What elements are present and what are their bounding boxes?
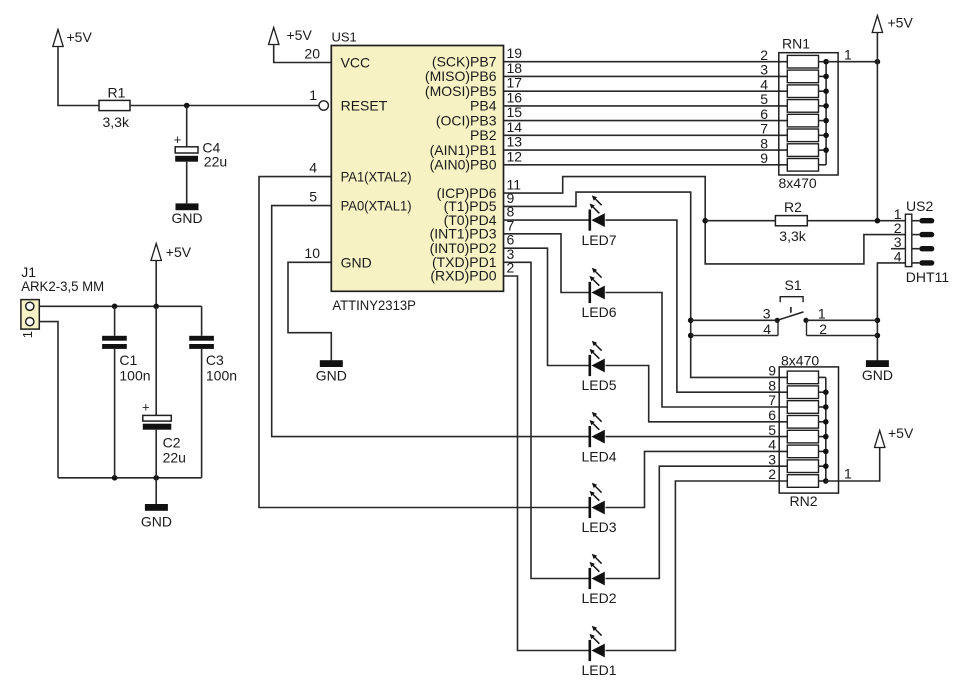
svg-text:PB2: PB2 — [470, 127, 497, 143]
wire ground rail to GND — [155, 478, 157, 504]
node RN1 common bus junction 1 — [823, 59, 829, 65]
wire US1 PB pin 15 to RN1 — [504, 120, 788, 122]
svg-text:C3: C3 — [206, 352, 224, 368]
connector US2 DHT11 — [891, 198, 949, 285]
svg-text:1: 1 — [309, 87, 317, 103]
svg-text:ATTINY2313P: ATTINY2313P — [332, 297, 416, 313]
US1 pin 11 number — [507, 177, 522, 193]
node ground rail/C2 junction — [153, 475, 159, 481]
US1 pin 5 number — [309, 188, 317, 204]
node RN2 common bus junction 1 — [823, 389, 829, 395]
LED LED1 — [581, 626, 616, 678]
svg-text:22u: 22u — [163, 450, 186, 466]
wire S1 pin 2 row — [807, 335, 878, 337]
wire US1 GND pin 10 to ground — [288, 262, 331, 360]
svg-text:1: 1 — [20, 331, 35, 338]
US1 pin 16 number — [507, 89, 523, 105]
svg-text:4: 4 — [768, 437, 776, 453]
svg-text:RN2: RN2 — [790, 493, 818, 509]
svg-text:6: 6 — [768, 407, 776, 423]
node S1 pin3 junction — [688, 318, 694, 324]
US1 pin 17 number — [507, 75, 523, 91]
svg-text:8x470: 8x470 — [779, 175, 817, 191]
power +5V symbol (near RN2) — [875, 425, 914, 447]
svg-text:C2: C2 — [163, 435, 181, 451]
node R2/+5V/DHT11 pin1 junction — [875, 218, 881, 224]
node data/R2 junction — [702, 218, 708, 224]
svg-text:LED6: LED6 — [581, 304, 616, 320]
svg-text:(MISO)PB6: (MISO)PB6 — [425, 68, 497, 84]
svg-text:GND: GND — [341, 254, 372, 270]
US1 pin 2 number — [507, 260, 515, 276]
wire DHT11 pin 4 to GND — [877, 263, 905, 360]
US1 pin 12 number — [507, 148, 523, 164]
svg-text:DHT11: DHT11 — [906, 269, 950, 285]
US1 pin 3 number — [507, 246, 515, 262]
power +5V symbol (top left) — [53, 29, 93, 47]
ground GND (below US1) — [316, 360, 347, 383]
svg-text:3: 3 — [768, 451, 776, 467]
LED LED7 — [581, 195, 616, 247]
power +5V symbol (above C2) — [151, 244, 192, 261]
svg-text:(RXD)PD0: (RXD)PD0 — [430, 268, 496, 284]
svg-text:S1: S1 — [785, 277, 802, 293]
node RN1 common bus junction 6 — [823, 133, 829, 139]
US1 pin 14 number — [507, 119, 523, 135]
node RN1 common bus junction 5 — [823, 118, 829, 124]
svg-text:GND: GND — [141, 514, 172, 530]
svg-text:PA0(XTAL1): PA0(XTAL1) — [341, 198, 412, 214]
node S1 pin4 junction — [688, 333, 694, 339]
resistor network RN1 8x470 — [760, 36, 852, 192]
wire US1 PD0 pin 2 to LED1 — [504, 276, 590, 651]
wire J1 pin 2 to ground rail — [39, 322, 58, 478]
US1 pin 6 number — [507, 232, 515, 248]
US1 pin 19 number — [507, 45, 523, 61]
svg-text:3,3k: 3,3k — [779, 228, 806, 244]
svg-text:4: 4 — [763, 321, 771, 337]
US1 pin 20 number — [304, 45, 320, 61]
wire +5V rail down to R2/DHT11 — [876, 33, 878, 221]
ground GND (below C2) — [141, 504, 172, 530]
node rail/C1 junction — [112, 304, 118, 310]
svg-text:22u: 22u — [204, 153, 227, 169]
wire US1 PB pin 19 to RN1 — [504, 61, 788, 63]
svg-text:100n: 100n — [119, 367, 150, 383]
wire US1 PB pin 17 to RN1 — [504, 90, 788, 92]
wire S1 pin 3 row — [691, 319, 778, 321]
node RN2 common bus junction 2 — [823, 404, 829, 410]
svg-text:US1: US1 — [332, 30, 357, 45]
capacitor C1 100n — [102, 306, 150, 478]
switch S1 (push button) — [763, 277, 827, 337]
wire R1 to US1 RESET — [130, 105, 319, 107]
svg-text:(MOSI)PB5: (MOSI)PB5 — [425, 83, 497, 99]
svg-text:+5V: +5V — [67, 29, 93, 45]
svg-text:LED5: LED5 — [581, 377, 616, 393]
node RN1 common bus junction 2 — [823, 74, 829, 80]
wire LED6 to RN2 pin 7 — [606, 293, 788, 408]
wire US1 PB pin 12 to RN1 — [504, 164, 788, 166]
svg-text:GND: GND — [171, 210, 202, 226]
svg-text:3: 3 — [760, 62, 768, 78]
US1 pin 8 number — [507, 204, 515, 220]
svg-text:PB4: PB4 — [470, 98, 497, 114]
svg-text:5: 5 — [309, 188, 317, 204]
svg-text:RESET: RESET — [341, 98, 388, 114]
svg-text:US2: US2 — [906, 198, 933, 214]
svg-text:RN1: RN1 — [782, 36, 810, 52]
US1 pin 18 number — [507, 60, 523, 76]
svg-text:VCC: VCC — [341, 55, 371, 71]
US1 pin 7 number — [507, 217, 515, 233]
svg-text:9: 9 — [760, 150, 768, 166]
svg-text:(SCK)PB7: (SCK)PB7 — [432, 53, 497, 69]
US1 RESET inversion circle (pin 1) — [319, 101, 328, 110]
IC US1 ATTINY2313P — [331, 30, 503, 313]
wire US1 PD2 pin 6 to LED5 — [504, 248, 590, 365]
LED LED6 — [581, 268, 616, 320]
capacitor C2 22u (electrolytic) — [142, 306, 186, 478]
svg-text:2: 2 — [760, 47, 768, 63]
svg-text:8x470: 8x470 — [781, 353, 819, 369]
svg-text:(AIN0)PB0: (AIN0)PB0 — [430, 157, 497, 173]
wire US1 PA0 pin 5 to LED4 — [272, 206, 590, 437]
node RN1 pin1/+5V junction — [875, 59, 881, 65]
wire LED7 to RN2 pin 8 — [606, 220, 788, 392]
wire US1 PD4 pin 8 to LED7 — [504, 219, 590, 221]
node RN1 common bus junction 7 — [823, 147, 829, 153]
svg-text:1: 1 — [844, 465, 852, 481]
svg-text:4: 4 — [760, 76, 768, 92]
wire S1 pin 4 row — [691, 335, 778, 337]
wire RN2 pin 1 to +5V — [826, 448, 880, 482]
svg-text:(AIN1)PB1: (AIN1)PB1 — [430, 142, 497, 158]
LED LED2 — [581, 554, 616, 606]
wire +5V to US1 VCC pin 20 — [274, 45, 332, 63]
wire +5V to supply rail — [155, 261, 157, 307]
svg-text:5: 5 — [768, 422, 776, 438]
svg-text:100n: 100n — [206, 367, 237, 383]
node RN1 common bus junction 3 — [823, 88, 829, 94]
US1 pin 13 number — [507, 134, 523, 150]
svg-text:+: + — [142, 400, 150, 415]
svg-text:J1: J1 — [21, 264, 36, 280]
svg-text:+5V: +5V — [888, 425, 914, 441]
wire LED4 to RN2 pin 5 — [606, 436, 788, 438]
US1 pin 1 number — [309, 87, 317, 103]
ground GND (below DHT11) — [862, 360, 893, 383]
wire US1 PB pin 18 to RN1 — [504, 75, 788, 77]
wire LED2 to RN2 pin 3 — [606, 466, 788, 578]
svg-text:7: 7 — [760, 121, 768, 137]
capacitor C4 22u (electrolytic) — [174, 106, 227, 204]
wire US1 PB pin 16 to RN1 — [504, 105, 788, 107]
svg-text:1: 1 — [818, 305, 826, 321]
node S1 pin2 junction — [875, 333, 881, 339]
svg-text:7: 7 — [768, 392, 776, 408]
power +5V symbol (above US1) — [269, 27, 313, 45]
wire US1 PA1 pin 4 to LED3 — [259, 177, 590, 508]
svg-text:+5V: +5V — [166, 244, 192, 260]
node RN2 common bus junction 7 — [823, 478, 829, 484]
svg-text:10: 10 — [304, 245, 320, 261]
wire US1 PB pin 14 to RN1 — [504, 134, 788, 136]
LED LED3 — [581, 483, 616, 535]
svg-text:4: 4 — [309, 159, 317, 175]
svg-text:4: 4 — [894, 248, 902, 264]
node RN2 common bus junction 3 — [823, 419, 829, 425]
wire US1 PD6 pin 11 to DHT11 pin 2 (data) — [504, 177, 906, 264]
svg-text:3: 3 — [763, 305, 771, 321]
svg-text:8: 8 — [768, 377, 776, 393]
svg-text:2: 2 — [768, 466, 776, 482]
svg-text:19: 19 — [507, 45, 523, 61]
svg-text:20: 20 — [304, 45, 320, 61]
node RN2 common bus junction 4 — [823, 434, 829, 440]
US1 pin 9 number — [507, 190, 515, 206]
svg-text:3,3k: 3,3k — [103, 114, 130, 130]
wire LED3 to RN2 pin 4 — [606, 451, 788, 507]
svg-text:+: + — [174, 132, 182, 147]
node RN2 common bus junction 5 — [823, 449, 829, 455]
node rail/C2 junction — [153, 304, 159, 310]
svg-text:+5V: +5V — [287, 27, 313, 43]
svg-text:R2: R2 — [784, 199, 802, 215]
LED LED5 — [581, 341, 616, 393]
svg-text:9: 9 — [768, 363, 776, 379]
svg-text:ARK2-3,5 MM: ARK2-3,5 MM — [21, 279, 104, 294]
node RN2 common bus junction 6 — [823, 463, 829, 469]
wire J1 pin 1 supply rail — [39, 305, 201, 307]
US1 pin 4 number — [309, 159, 317, 175]
svg-text:LED7: LED7 — [581, 232, 616, 248]
svg-text:LED4: LED4 — [581, 448, 616, 464]
svg-text:GND: GND — [316, 367, 347, 383]
svg-text:LED3: LED3 — [581, 519, 616, 535]
LED LED4 — [581, 412, 616, 464]
svg-text:R1: R1 — [108, 85, 126, 101]
node S1 pin1 junction — [875, 318, 881, 324]
wire ground rail — [58, 477, 202, 479]
node RN1 common bus junction 4 — [823, 103, 829, 109]
svg-text:6: 6 — [760, 106, 768, 122]
connector J1 ARK2-3,5 MM — [20, 264, 104, 338]
svg-text:GND: GND — [862, 367, 893, 383]
node R1/C4/RESET junction — [184, 103, 190, 109]
svg-text:5: 5 — [760, 91, 768, 107]
svg-text:+5V: +5V — [888, 14, 914, 30]
node ground rail/C1 junction — [112, 475, 118, 481]
wire US1 PB pin 13 to RN1 — [504, 149, 788, 151]
US1 pin 15 number — [507, 104, 523, 120]
capacitor C3 100n — [189, 306, 237, 478]
ground GND (below C4) — [171, 203, 202, 226]
wire LED5 to RN2 pin 6 — [606, 366, 788, 422]
svg-text:LED2: LED2 — [581, 590, 616, 606]
svg-text:PA1(XTAL2): PA1(XTAL2) — [341, 169, 412, 185]
wire +5V to R1 — [58, 47, 99, 106]
svg-text:C1: C1 — [119, 352, 137, 368]
wire US1 PD3 pin 7 to LED6 — [504, 234, 590, 293]
svg-text:2: 2 — [819, 321, 827, 337]
svg-text:(OCI)PB3: (OCI)PB3 — [436, 112, 497, 128]
svg-text:LED1: LED1 — [581, 662, 616, 678]
svg-text:1: 1 — [844, 47, 852, 63]
US1 pin 10 number — [304, 245, 320, 261]
wire US1 PD5 pin 9 to S1/RN2 pin 9 — [504, 192, 788, 377]
power +5V symbol (top right) — [872, 14, 913, 32]
wire RN1 pin 1 to +5V — [826, 61, 877, 63]
wire US1 PD1 pin 3 to LED2 — [504, 262, 590, 578]
resistor R2 3,3k — [705, 199, 905, 244]
svg-text:8: 8 — [760, 135, 768, 151]
resistor R1 — [99, 85, 130, 131]
wire S1 pin 1 row — [806, 319, 877, 321]
resistor network RN2 8x470 — [768, 353, 852, 509]
wire LED1 to RN2 pin 2 — [606, 481, 788, 651]
